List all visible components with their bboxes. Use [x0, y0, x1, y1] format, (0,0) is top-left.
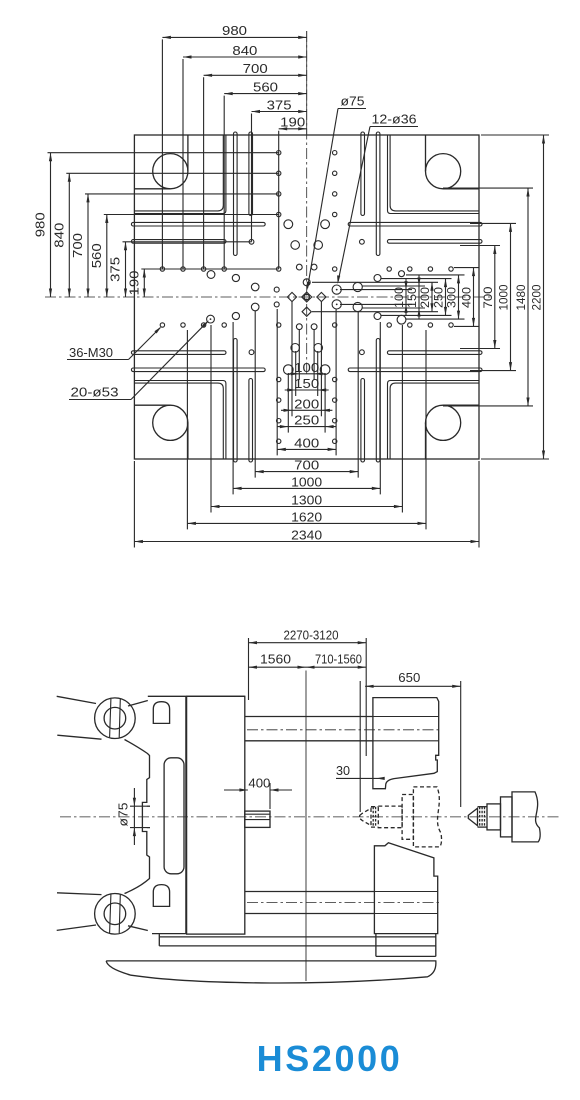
svg-text:200: 200 [418, 287, 432, 308]
svg-text:560: 560 [253, 80, 278, 94]
svg-text:2270-3120: 2270-3120 [284, 628, 339, 642]
svg-text:400: 400 [294, 436, 319, 450]
svg-text:400: 400 [459, 287, 473, 308]
svg-text:980: 980 [34, 212, 48, 237]
svg-text:1480: 1480 [514, 284, 528, 310]
svg-text:250: 250 [431, 287, 445, 308]
svg-text:20-ø53: 20-ø53 [71, 386, 119, 400]
svg-text:150: 150 [294, 377, 319, 391]
svg-text:HS2000: HS2000 [257, 1038, 403, 1079]
svg-text:1000: 1000 [291, 475, 322, 489]
svg-text:700: 700 [243, 62, 268, 76]
svg-text:560: 560 [90, 243, 104, 268]
svg-text:ø75: ø75 [117, 803, 131, 827]
svg-text:200: 200 [294, 397, 319, 411]
svg-text:1300: 1300 [291, 494, 322, 508]
svg-text:30: 30 [336, 764, 350, 778]
svg-text:190: 190 [280, 116, 305, 130]
svg-text:ø75: ø75 [341, 95, 365, 109]
svg-text:36-M30: 36-M30 [69, 346, 113, 360]
svg-text:1000: 1000 [497, 284, 511, 310]
svg-text:190: 190 [127, 271, 141, 296]
svg-text:400: 400 [248, 777, 270, 791]
svg-text:1620: 1620 [291, 510, 322, 524]
svg-text:700: 700 [294, 459, 319, 473]
svg-text:840: 840 [52, 223, 66, 248]
svg-text:2340: 2340 [291, 529, 322, 543]
svg-text:650: 650 [398, 671, 420, 685]
svg-text:375: 375 [109, 257, 123, 282]
svg-text:100: 100 [294, 361, 319, 375]
svg-text:980: 980 [222, 24, 247, 38]
svg-text:375: 375 [267, 98, 292, 112]
svg-text:300: 300 [444, 287, 458, 308]
svg-text:700: 700 [71, 233, 85, 258]
svg-text:250: 250 [294, 414, 319, 428]
svg-text:12-ø36: 12-ø36 [372, 113, 417, 127]
svg-text:840: 840 [232, 44, 257, 58]
svg-text:710-1560: 710-1560 [315, 652, 362, 666]
svg-text:2200: 2200 [530, 284, 544, 310]
svg-text:1560: 1560 [260, 652, 291, 666]
svg-text:700: 700 [481, 286, 495, 308]
